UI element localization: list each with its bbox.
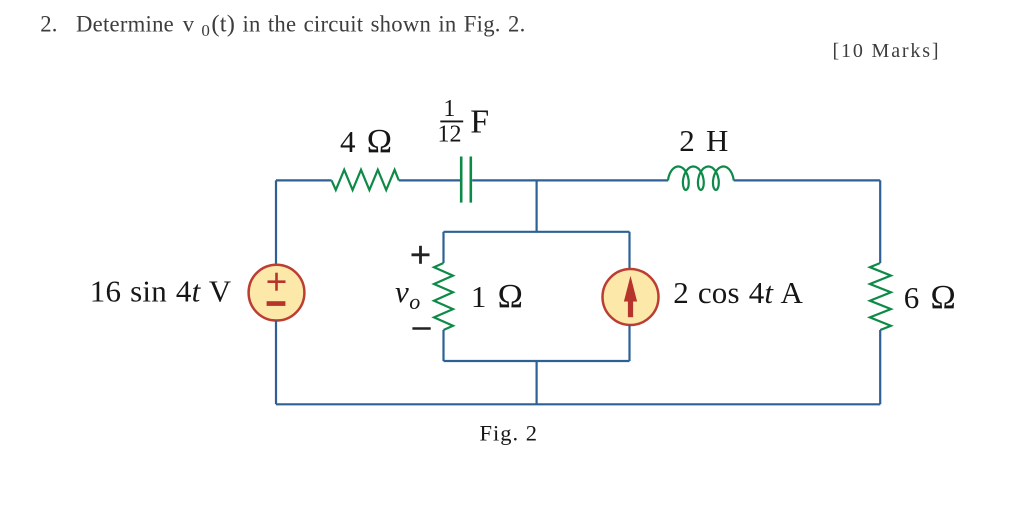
label 1/12 F [438,96,490,147]
label vo [395,274,420,314]
wire: inner box top [444,231,630,233]
svg-text:F: F [470,103,489,140]
svg-text:Determine v0(t) in the circuit: Determine v0(t) in the circuit shown in … [76,10,526,40]
voltage source VS circle [249,265,305,321]
resistor R 4ohm zigzag [332,170,399,190]
wire: top left segment [276,179,332,181]
svg-text:1 Ω: 1 Ω [471,278,524,315]
svg-text:1: 1 [443,96,455,122]
wire: right side lower [879,330,881,404]
svg-text:12: 12 [438,121,462,147]
svg-text:16 sin 4t V: 16 sin 4t V [90,274,232,309]
svg-text:6 Ω: 6 Ω [904,279,957,316]
wire: inner left lower lead [442,330,444,361]
wire: resistor to capacitor [399,179,460,181]
wire: right side upper [879,180,881,263]
svg-text:2 cos 4t A: 2 cos 4t A [673,275,803,310]
resistor R 1ohm zigzag [434,263,453,330]
wire: junction drop to inner box [535,180,537,231]
wire: inner right upper lead [628,232,630,269]
wire: inner left upper lead [442,232,444,263]
node vo plus mark [412,246,430,264]
svg-text:4 Ω: 4 Ω [340,123,393,160]
svg-text:2.: 2. [40,11,58,36]
wire: bottom [276,403,880,405]
wire: junction drop to bottom [535,361,537,404]
wire: inner box bottom [444,360,630,362]
node vo minus mark [412,327,430,330]
voltage source minus sign [267,301,286,306]
current source arrow [624,276,637,318]
svg-text:2 H: 2 H [679,123,729,158]
wire: inner right lower lead [628,325,630,361]
wire: inductor to top-right corner [734,179,881,181]
current source CS circle [603,269,659,325]
svg-text:o: o [409,289,420,314]
wire: left side upper [275,180,277,264]
svg-text:v: v [395,274,409,309]
resistor R 6ohm zigzag [870,263,891,330]
problem title [40,10,525,40]
svg-text:Fig. 2: Fig. 2 [480,420,539,445]
svg-text:[10 Marks]: [10 Marks] [833,40,941,62]
capacitor C plates [461,157,471,203]
wire: left side lower [275,320,277,404]
wire: capacitor to inductor [472,179,668,181]
voltage source plus sign [268,273,286,291]
inductor L 2H coil [668,167,734,190]
